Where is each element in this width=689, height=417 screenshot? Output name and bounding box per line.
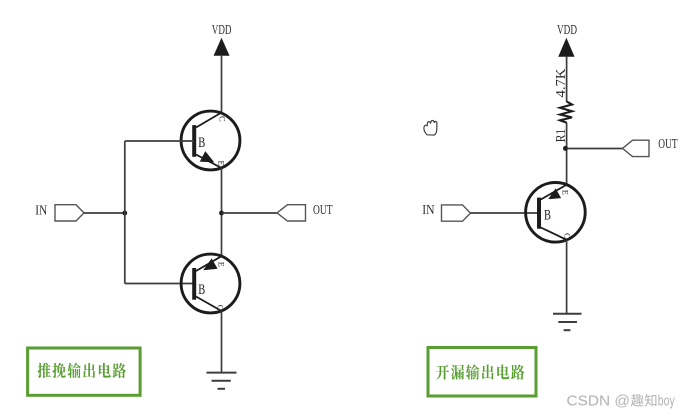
ground (left) — [207, 373, 237, 389]
svg-text:boy: boy — [658, 394, 676, 410]
node IN junction (left) — [122, 211, 127, 216]
wire Q1 emitter to Q2 emitter (output bus) — [221, 168, 223, 256]
wire IN port to base bus — [84, 212, 125, 214]
svg-text:E: E — [217, 262, 227, 267]
caption text left — [37, 363, 50, 378]
wire IN port to Q3 base — [471, 212, 540, 214]
node OUT junction (right) — [563, 146, 568, 151]
power symbol VDD arrow (right) — [559, 39, 574, 56]
wire OUT stub (left) — [222, 212, 278, 214]
svg-text:CSDN @: CSDN @ — [567, 394, 631, 410]
wire OUT stub (right) — [567, 148, 623, 150]
port OUT (right) — [623, 140, 650, 156]
power symbol VDD arrow (left) — [214, 39, 229, 55]
svg-text:VDD: VDD — [557, 23, 577, 38]
svg-text:B: B — [198, 135, 205, 151]
svg-text:VDD: VDD — [212, 23, 232, 38]
transistor Q1 (NPN, top) — [181, 111, 240, 170]
svg-text:4.7K: 4.7K — [554, 69, 569, 98]
port OUT (left) — [277, 205, 306, 221]
caption box: open-drain output circuit — [428, 348, 536, 397]
transistor Q3 (right) — [526, 183, 586, 243]
port IN (right) — [442, 205, 471, 221]
wire VDD to resistor R1 — [566, 56, 568, 102]
caption box: push-pull output circuit — [28, 348, 141, 395]
svg-text:C: C — [218, 116, 228, 122]
port IN (left) — [55, 205, 84, 221]
svg-text:OUT: OUT — [313, 203, 333, 218]
node OUT junction (left) — [219, 211, 224, 216]
wire VDD to Q1 collector — [221, 55, 223, 114]
svg-text:C: C — [563, 233, 573, 239]
transistor Q2 (PNP, bottom) — [181, 254, 240, 313]
watermark chars — [631, 394, 644, 407]
caption text right — [436, 365, 449, 380]
resistor R1 zigzag — [560, 102, 572, 123]
wire Q2 collector to ground — [221, 311, 223, 373]
wire Q3 collector to ground — [566, 240, 568, 314]
wire R1 to Q3 emitter — [566, 123, 568, 186]
svg-text:B: B — [544, 208, 551, 224]
wire base bus vertical — [124, 141, 126, 284]
hand cursor icon — [424, 120, 437, 135]
svg-text:C: C — [216, 305, 226, 311]
svg-text:IN: IN — [422, 203, 434, 218]
svg-text:E: E — [217, 161, 227, 166]
svg-text:B: B — [198, 282, 205, 298]
svg-text:IN: IN — [35, 204, 47, 219]
svg-text:OUT: OUT — [658, 137, 678, 152]
svg-text:E: E — [561, 190, 571, 195]
ground (right) — [553, 314, 582, 330]
wire base bus to Q2 base — [125, 283, 194, 285]
wire base bus to Q1 base — [125, 140, 194, 142]
